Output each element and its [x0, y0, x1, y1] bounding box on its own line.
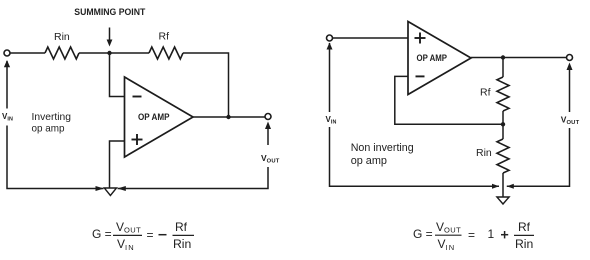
svg-text:=: = — [468, 228, 475, 242]
svg-text:Inverting: Inverting — [32, 111, 72, 123]
resistor Rin (right circuit, vertical) — [497, 139, 509, 173]
U2 non-inverting input (+) symbol — [415, 33, 426, 44]
label: Non inverting op amp — [351, 142, 414, 167]
Vin arrow (right circuit) — [327, 43, 333, 50]
svg-text:=: = — [147, 228, 154, 242]
op-amp U1 (inverting) — [125, 77, 194, 157]
node: feedback junction dot (right circuit) — [501, 122, 505, 126]
label: Inverting op amp — [32, 111, 72, 135]
svg-text:Rf: Rf — [175, 220, 188, 234]
svg-text:Rin: Rin — [476, 147, 492, 159]
svg-text:Rin: Rin — [515, 237, 533, 251]
wire: summing point down to inverting input — [110, 53, 125, 97]
label Vin (right circuit) — [322, 112, 338, 127]
svg-text:Rf: Rf — [159, 31, 170, 43]
output terminal (Vout, right circuit) — [567, 55, 573, 61]
svg-text:Rf: Rf — [480, 87, 491, 99]
wire: Vin rail down and bottom to ground — [7, 61, 104, 189]
svg-text:G =: G = — [92, 227, 112, 241]
wire: Rf to feedback node — [502, 111, 504, 124]
summing point arrow — [107, 28, 113, 47]
wire: Rin down to ground — [502, 173, 504, 197]
svg-text:SUMMING POINT: SUMMING POINT — [74, 7, 145, 17]
Vout arrow (right circuit) — [567, 63, 573, 113]
wire: feedback node down to Rin — [502, 124, 504, 139]
svg-text:OP AMP: OP AMP — [417, 53, 448, 63]
label OP AMP (U2) — [417, 53, 448, 63]
arrow into ground wire from right (right circuit) — [507, 184, 514, 189]
wire: input terminal to non-inverting input — [332, 37, 408, 39]
svg-text:1: 1 — [488, 227, 495, 241]
arrow into ground from left (left circuit) — [96, 186, 105, 191]
label SUMMING POINT — [74, 7, 145, 17]
wire: U2 output to output terminal — [471, 57, 567, 59]
wire: inverting input to feedback junction — [395, 76, 503, 124]
svg-text:Non inverting: Non inverting — [351, 142, 414, 154]
resistor Rf (right circuit, vertical) — [497, 77, 509, 111]
svg-text:OP AMP: OP AMP — [138, 112, 170, 122]
formula: G = Vout/Vin = -Rf/Rin (left) — [92, 220, 194, 252]
label Rin — [54, 31, 70, 43]
Vout arrow (left circuit) — [265, 122, 271, 146]
wire: U1 output to output terminal — [193, 116, 266, 118]
wire: output node down to Rf — [502, 58, 504, 78]
resistor Rf (left circuit) — [149, 47, 183, 59]
node: output junction dot — [226, 115, 230, 119]
U2 inverting input (-) symbol — [416, 75, 425, 77]
label Vout (right circuit) — [558, 113, 582, 128]
label Rf — [159, 31, 170, 43]
label Vin (left circuit) — [0, 109, 14, 126]
ground (right circuit) — [497, 197, 509, 204]
wire: Vout down to bottom rail — [507, 128, 570, 186]
input terminal (Vin, left circuit) — [4, 50, 10, 56]
wire: non-inverting input to ground — [110, 141, 125, 188]
label Vout (left circuit) — [261, 153, 280, 165]
svg-text:G =: G = — [413, 227, 433, 241]
Vin arrow (left circuit) — [4, 60, 10, 67]
wire: input terminal to Rin — [10, 52, 45, 54]
svg-text:Rf: Rf — [518, 220, 531, 234]
op-amp U2 (non-inverting) — [408, 22, 471, 95]
label Rin (right circuit) — [476, 147, 492, 159]
wire: Rf to output node (top and right vertical) — [183, 53, 229, 117]
label Rf (right circuit) — [480, 87, 491, 99]
U1 non-inverting input (+) symbol — [132, 134, 143, 145]
wire: output return down to bottom rail — [118, 167, 269, 189]
svg-text:Rin: Rin — [54, 31, 70, 43]
U1 inverting input (-) symbol — [133, 96, 142, 98]
svg-text:Rin: Rin — [173, 237, 191, 251]
svg-text:op amp: op amp — [32, 123, 65, 135]
wire: Vin rail down and bottom (right circuit) — [330, 43, 500, 186]
wire: Rin to summing point — [79, 52, 110, 54]
resistor Rin (left circuit) — [45, 47, 79, 59]
arrow into ground from right (left circuit) — [117, 186, 126, 191]
node: summing point junction dot — [107, 51, 111, 55]
ground (left circuit) — [104, 188, 116, 196]
formula: G = Vout/Vin = 1 + Rf/Rin (right) — [413, 220, 534, 252]
wire: summing point to Rf — [110, 52, 150, 54]
input terminal (Vin, right circuit) — [327, 35, 333, 41]
output terminal (Vout, left circuit) — [265, 114, 271, 120]
arrow into ground wire from left (right circuit) — [492, 184, 499, 189]
label OP AMP (U1) — [138, 112, 170, 122]
svg-text:op amp: op amp — [351, 155, 387, 167]
node: output junction dot (right circuit) — [501, 55, 505, 59]
